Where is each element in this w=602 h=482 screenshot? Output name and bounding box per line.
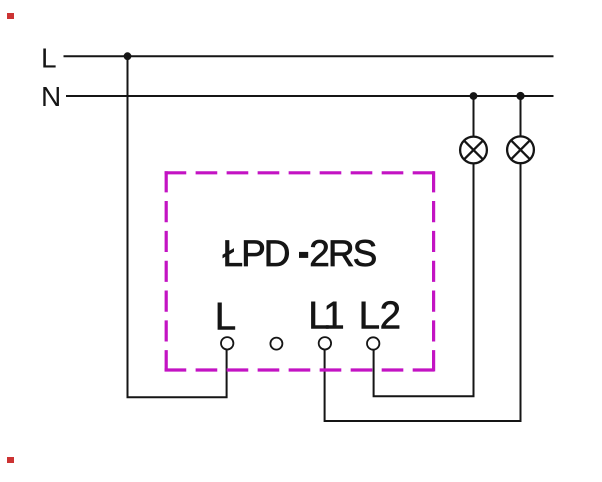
unlabeled pin circle	[270, 338, 282, 350]
wire L line	[64, 55, 554, 57]
svg-text:L: L	[215, 296, 236, 339]
terminal L1 pin circle	[319, 337, 331, 349]
svg-text:L1: L1	[308, 295, 345, 338]
red scan mark top-left	[7, 13, 14, 19]
svg-text:N: N	[41, 81, 61, 112]
svg-text:ŁPD: ŁPD	[223, 233, 291, 274]
terminal L2 pin circle	[367, 337, 379, 349]
lamp E2	[507, 136, 534, 163]
wire lamp E2 bottom to terminal L1	[325, 163, 521, 421]
wire from N line to lamp E1 top	[473, 96, 475, 137]
wire lamp E1 bottom to terminal L2	[374, 163, 474, 396]
dimmer module outline left edge	[165, 171, 168, 371]
junction dot on N line (lamp E2 feed)	[516, 92, 524, 100]
wire from L line down to terminal L	[128, 56, 227, 397]
wire from N line to lamp E2 top	[520, 96, 522, 136]
red scan mark bottom-left	[7, 457, 14, 463]
dimmer module outline top edge	[165, 171, 436, 174]
dimmer module outline bottom edge	[165, 368, 436, 371]
svg-text:2RS: 2RS	[309, 233, 377, 274]
junction dot on N line (lamp E1 feed)	[470, 92, 478, 100]
lamp E1	[460, 137, 487, 164]
junction dot on L line	[124, 52, 132, 60]
module name hyphen	[299, 252, 308, 258]
wire N line	[66, 95, 554, 97]
svg-text:L2: L2	[359, 295, 402, 338]
terminal L pin circle	[221, 337, 233, 349]
dimmer module outline right edge	[432, 171, 435, 371]
svg-text:L: L	[41, 43, 57, 74]
